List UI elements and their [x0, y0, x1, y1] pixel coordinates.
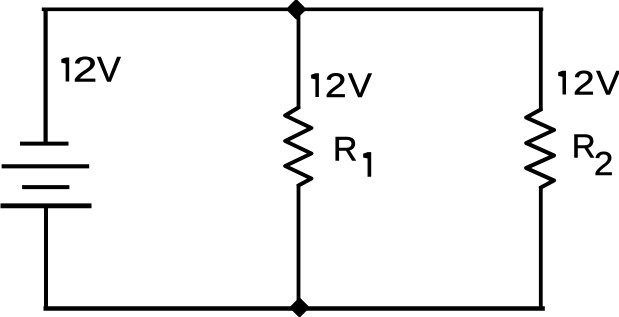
- node junction dot bottom: [289, 297, 310, 317]
- resistor R2 zigzag: [526, 110, 554, 188]
- svg-text:R: R: [572, 128, 596, 165]
- node junction dot top: [286, 0, 307, 20]
- svg-text:2: 2: [325, 67, 347, 105]
- wire middle vertical top lead: [297, 8, 301, 110]
- wire middle vertical bottom lead: [297, 184, 301, 311]
- battery B1 short plate 3: [22, 185, 69, 189]
- svg-text:2: 2: [594, 145, 614, 182]
- wire left vertical lower (battery - down to bottom rail): [44, 206, 48, 311]
- wire left vertical upper (top rail down to battery +): [43, 8, 47, 145]
- svg-text:2: 2: [573, 65, 595, 103]
- wire top horizontal: [42, 8, 544, 12]
- battery B1 short top plate: [20, 142, 69, 146]
- svg-text:V: V: [97, 51, 122, 90]
- label 12V battery: digit 1: [61, 58, 69, 82]
- battery B1 long bottom plate: [1, 203, 92, 208]
- label R1: subscript 1: [363, 152, 371, 177]
- resistor R1 zigzag: [285, 108, 311, 186]
- wire right vertical bottom lead: [539, 186, 543, 311]
- battery B1 long plate 2: [2, 164, 90, 168]
- svg-text:2: 2: [73, 51, 97, 90]
- wire right vertical top lead: [539, 8, 543, 112]
- label 12V across R1: digit 1: [311, 73, 319, 97]
- svg-text:V: V: [596, 65, 619, 103]
- svg-text:R: R: [333, 131, 358, 169]
- label 12V across R2: digit 1: [558, 71, 566, 95]
- svg-text:V: V: [348, 67, 372, 105]
- wire bottom horizontal: [44, 306, 545, 310]
